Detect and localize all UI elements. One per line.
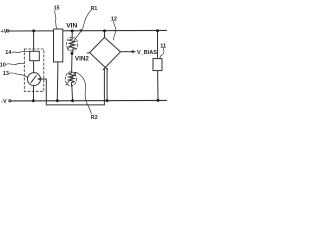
- svg-text:R1: R1: [91, 6, 98, 12]
- svg-text:12: 12: [111, 16, 117, 22]
- svg-text:VIN2: VIN2: [75, 56, 89, 63]
- svg-text:15: 15: [54, 6, 60, 12]
- svg-text:V_BIAS: V_BIAS: [137, 50, 157, 56]
- svg-text:R2: R2: [91, 115, 98, 120]
- svg-text:13: 13: [3, 71, 9, 77]
- svg-text:11: 11: [160, 44, 166, 50]
- svg-text:14: 14: [5, 50, 12, 56]
- svg-text:VIN: VIN: [66, 23, 77, 30]
- svg-text:-V: -V: [1, 99, 7, 105]
- svg-text:+V: +V: [1, 29, 8, 35]
- svg-text:10: 10: [0, 63, 6, 69]
